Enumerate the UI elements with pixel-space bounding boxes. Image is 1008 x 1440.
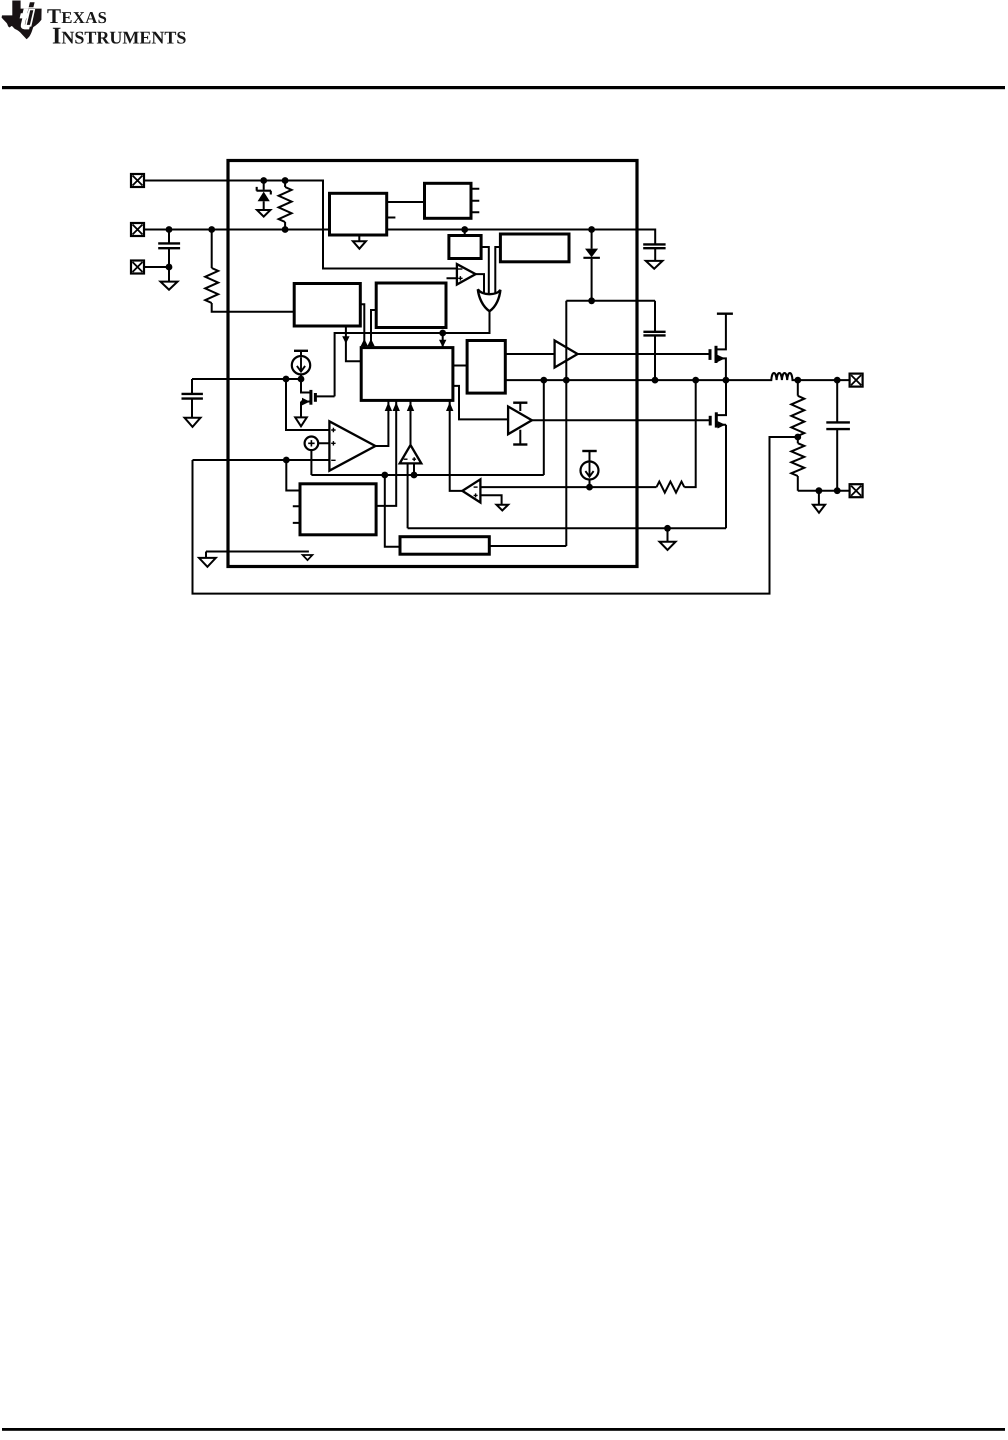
svg-text:INSTRUMENTS: INSTRUMENTS (52, 23, 186, 49)
